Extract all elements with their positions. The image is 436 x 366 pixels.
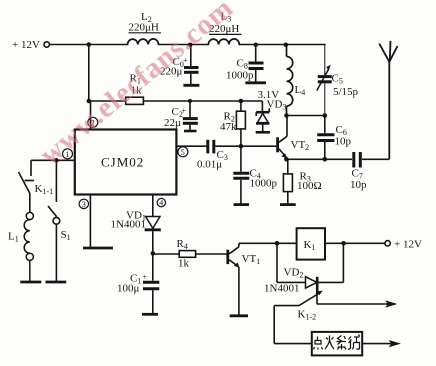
ground (C1) (142, 313, 158, 316)
svg-text:CJM02: CJM02 (101, 155, 144, 170)
wire 3.1V rail (183, 100, 263, 102)
wire K1 to +12V terminal (325, 242, 385, 244)
wire emitter row to C7 (286, 158, 352, 160)
capacitor C6 10p (317, 116, 334, 160)
capacitor C8 (249, 45, 264, 82)
capacitor C1 100u (143, 253, 159, 313)
svg-text:L4: L4 (295, 84, 306, 97)
resistor R4 1k (153, 251, 227, 258)
svg-text:VT1: VT1 (242, 253, 261, 266)
ground (R3) (280, 203, 296, 206)
svg-text:0.01μ: 0.01μ (197, 159, 222, 171)
capacitor C7 10p (354, 152, 361, 168)
svg-text:1000p: 1000p (250, 178, 278, 190)
IC CJM02 (75, 130, 177, 195)
svg-text:VT2: VT2 (291, 139, 310, 152)
svg-text:1k: 1k (178, 258, 190, 270)
svg-text:L1: L1 (8, 231, 19, 244)
resistor R3 100ohm (283, 159, 292, 203)
wire +12V down to R1 rail (88, 45, 90, 102)
transistor VT2 (278, 116, 287, 160)
inductor L2 (128, 39, 159, 45)
pin 4 (152, 195, 154, 217)
ground (L1) (20, 281, 41, 284)
svg-text:4: 4 (159, 199, 163, 208)
ignition system text (dian huo xi tong) (314, 335, 360, 350)
ground (C0) (183, 84, 199, 87)
relay coil K1 (297, 228, 325, 259)
svg-text:47k: 47k (220, 121, 237, 133)
wire VD2 verticals (277, 243, 343, 282)
ground (C8) (245, 81, 266, 84)
node C8 junction (253, 43, 258, 48)
pin 2 (90, 101, 92, 130)
ground (VT1) (230, 314, 248, 317)
svg-text:1N4001: 1N4001 (264, 283, 299, 295)
svg-text:K1-1: K1-1 (35, 183, 54, 196)
svg-text:R4: R4 (177, 238, 188, 251)
wire VT1 collector to K1 (239, 242, 297, 244)
wire C7 to antenna (362, 158, 389, 160)
svg-text:K1-2: K1-2 (298, 309, 317, 322)
svg-text:3: 3 (82, 200, 86, 209)
node C5 bottom (323, 113, 328, 118)
svg-text:10p: 10p (335, 136, 352, 148)
svg-text:VD3: VD3 (267, 99, 287, 112)
switch S1 (48, 160, 60, 281)
ignition system box (312, 332, 362, 356)
resistor R1 1k (89, 97, 183, 104)
capacitor C0 electrolytic (184, 45, 199, 85)
wire ignition output arrow (362, 343, 391, 345)
wire to VT2 base (241, 145, 276, 147)
capacitor C2 22u (183, 101, 198, 130)
svg-text:5: 5 (181, 148, 185, 157)
svg-text:C5: C5 (332, 73, 343, 86)
node L2-L3 junction (188, 43, 193, 48)
diode VD1 1N4001 (145, 217, 161, 254)
ground (pin3) (83, 247, 113, 250)
node K1 right (341, 241, 346, 246)
svg-text:220μH: 220μH (129, 22, 159, 34)
ground (S1) (46, 281, 67, 284)
node VT2 emitter (284, 157, 289, 162)
svg-text:100μ: 100μ (117, 283, 140, 295)
svg-text:VD2: VD2 (284, 267, 304, 280)
wire to ignition box (274, 343, 312, 345)
svg-text:1N4001: 1N4001 (111, 219, 146, 231)
ground (C4) (234, 203, 250, 206)
node C3/R2/C4 (239, 144, 244, 149)
svg-text:100Ω: 100Ω (297, 180, 322, 192)
node R1 left (87, 99, 92, 104)
node C2 top (188, 99, 192, 103)
diode VD2 1N4001 (277, 277, 343, 295)
svg-text:K1: K1 (304, 239, 316, 252)
wire L4 bottom to C5 branch (287, 115, 325, 117)
node R2 top (239, 99, 244, 104)
wire K1-2 output arrow (316, 294, 318, 304)
svg-text:1000p: 1000p (226, 70, 254, 82)
node L4 top junction (284, 43, 289, 48)
pin 5 wire (176, 145, 206, 147)
svg-text:+ 12V: + 12V (12, 39, 40, 51)
transistor VT1 (228, 243, 239, 314)
svg-text:+: + (182, 107, 187, 116)
svg-text:+ 12V: + 12V (394, 239, 422, 251)
node C6 bottom (323, 157, 328, 162)
wire down to ignition row (273, 306, 275, 344)
inductor L1 (24, 212, 33, 281)
pin 1 wire (31, 159, 75, 161)
antenna (379, 41, 397, 159)
capacitor C3 0.01u (208, 140, 241, 154)
node VD1/C1/R4 (151, 251, 156, 256)
capacitor C5 variable 5/15p (317, 45, 332, 116)
ground (C2) (184, 130, 197, 133)
terminal +12V left (44, 42, 49, 47)
node L4 bottom (284, 113, 289, 118)
inductor L4 (287, 45, 293, 116)
node K1 left (275, 241, 280, 246)
wire top rail (50, 44, 128, 46)
switch K1-1 (19, 160, 35, 212)
svg-text:5/15p: 5/15p (333, 86, 359, 98)
node pin1/S1 (54, 158, 59, 163)
svg-text:S1: S1 (61, 229, 71, 242)
switch K1-2 (274, 293, 319, 306)
capacitor C4 1000p (233, 146, 249, 203)
zener diode VD3 3.1V (256, 101, 270, 131)
inductor L3 (208, 39, 239, 45)
terminal +12V right (385, 241, 390, 246)
pin 3 (89, 195, 91, 248)
svg-text:22μ: 22μ (164, 117, 181, 129)
svg-text:10p: 10p (350, 179, 367, 191)
svg-text:+: + (143, 273, 148, 282)
resistor R2 47k (236, 101, 245, 146)
ground (VD3) (256, 131, 270, 134)
node +12V top junction (87, 42, 92, 47)
